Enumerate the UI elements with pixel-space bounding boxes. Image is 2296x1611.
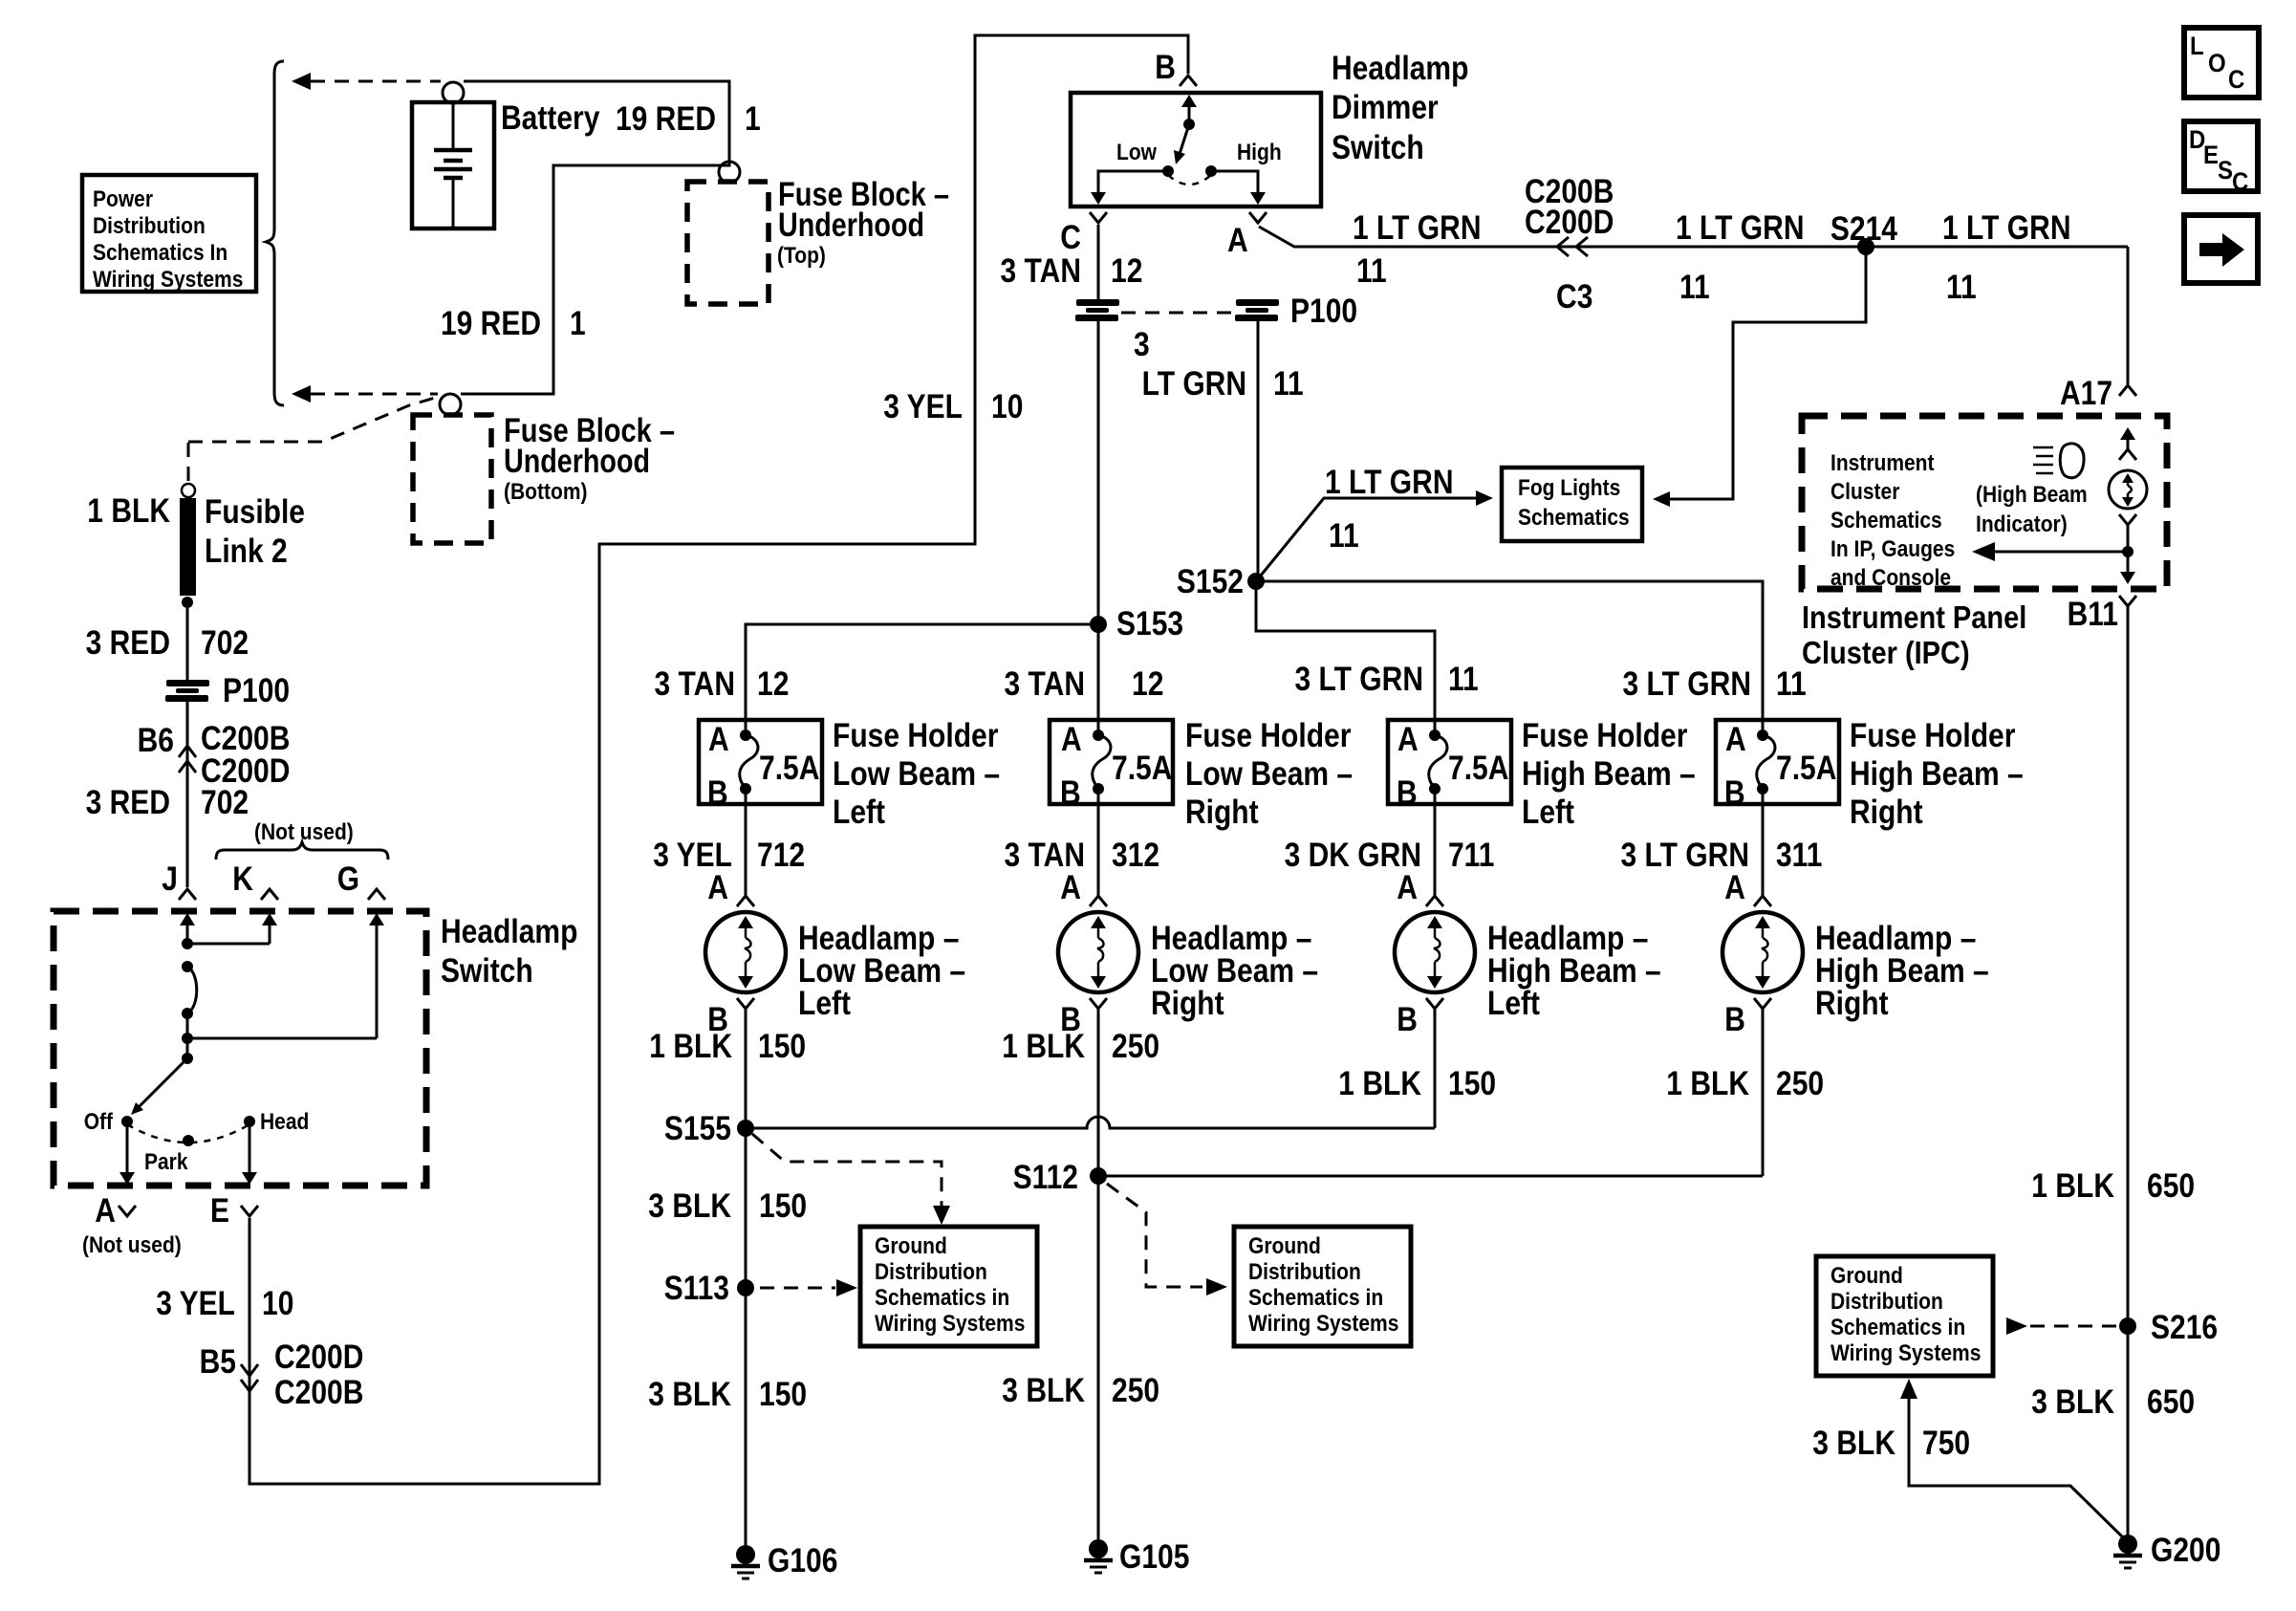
svg-text:Distribution: Distribution xyxy=(93,213,206,239)
svg-text:Battery: Battery xyxy=(501,99,600,137)
svg-text:J: J xyxy=(162,860,178,898)
svg-text:S153: S153 xyxy=(1116,605,1183,642)
svg-text:G: G xyxy=(337,860,359,898)
svg-text:3 BLK: 3 BLK xyxy=(1812,1425,1895,1462)
svg-text:11: 11 xyxy=(1273,365,1304,403)
svg-text:O: O xyxy=(2208,49,2226,77)
bulb lower chevron xyxy=(2119,514,2136,525)
fog lights wire arrow into box (right) xyxy=(1653,491,1670,507)
svg-text:B: B xyxy=(1724,1001,1745,1038)
svg-text:Schematics: Schematics xyxy=(1830,508,1942,533)
fuse block underhood top terminal circle xyxy=(719,162,740,183)
pin J chevron xyxy=(179,889,196,900)
svg-text:A: A xyxy=(1725,721,1746,758)
svg-text:C200D: C200D xyxy=(1525,204,1614,241)
svg-text:High: High xyxy=(1237,140,1282,165)
wire A diagonal to 1 LT GRN run xyxy=(1259,227,2128,247)
svg-text:(Bottom): (Bottom) xyxy=(504,479,588,505)
dashed arc Low-High xyxy=(1168,175,1211,185)
svg-text:Wiring Systems: Wiring Systems xyxy=(1830,1340,1981,1366)
svg-text:B: B xyxy=(1724,774,1745,812)
svg-text:B: B xyxy=(1155,49,1176,86)
svg-text:Instrument Panel: Instrument Panel xyxy=(1802,599,2026,635)
svg-text:1 LT GRN: 1 LT GRN xyxy=(1676,209,1805,247)
svg-text:Schematics: Schematics xyxy=(1518,505,1630,531)
svg-text:E: E xyxy=(2203,141,2219,169)
contact Head xyxy=(244,1116,255,1127)
svg-text:650: 650 xyxy=(2147,1383,2195,1421)
svg-text:A: A xyxy=(707,869,728,906)
label 3 TAN | 12 (mid col) xyxy=(1005,665,1164,703)
svg-text:250: 250 xyxy=(1112,1028,1159,1065)
svg-text:1 LT GRN: 1 LT GRN xyxy=(1353,209,1482,247)
brace left of power feeds xyxy=(266,61,284,405)
svg-text:B11: B11 xyxy=(2068,596,2118,633)
dashed link between P100 grommets xyxy=(1121,312,1234,315)
label C200B C200D (C3) xyxy=(1525,173,1614,241)
svg-text:Left: Left xyxy=(1522,794,1574,831)
svg-text:Left: Left xyxy=(798,985,851,1022)
svg-text:Fuse Holder: Fuse Holder xyxy=(1522,717,1688,754)
junction dot below fusible link xyxy=(182,597,193,608)
label 3 TAN | 12 (left col) xyxy=(655,665,790,703)
headlamp switch dashed box xyxy=(54,911,426,1186)
svg-text:C: C xyxy=(2228,65,2244,94)
wire S214 branch to fog lights xyxy=(1669,247,1866,499)
label Headlamp Switch xyxy=(441,913,577,990)
svg-text:3 BLK: 3 BLK xyxy=(648,1187,731,1225)
headlamp High Beam - Right xyxy=(1722,804,1803,1176)
svg-text:In IP, Gauges: In IP, Gauges xyxy=(1830,536,1955,562)
svg-text:1 BLK: 1 BLK xyxy=(87,492,170,530)
box Ground Distribution Schematics 2 xyxy=(1234,1227,1411,1346)
svg-text:1 LT GRN: 1 LT GRN xyxy=(1325,464,1454,501)
svg-text:Right: Right xyxy=(1815,985,1889,1022)
label Headlamp - High Beam - Left xyxy=(1487,920,1661,1022)
label Headlamp - High Beam - Right xyxy=(1815,920,1989,1022)
svg-text:Schematics in: Schematics in xyxy=(1248,1285,1383,1311)
svg-text:Right: Right xyxy=(1151,985,1224,1022)
nav box LOC xyxy=(2184,28,2259,98)
svg-text:C: C xyxy=(1060,219,1081,256)
label Headlamp Dimmer Switch xyxy=(1332,50,1468,166)
svg-text:Off: Off xyxy=(84,1109,114,1135)
label Headlamp - Low Beam - Left xyxy=(798,920,965,1022)
svg-text:Schematics in: Schematics in xyxy=(1830,1315,1965,1340)
node S214 xyxy=(1857,238,1874,255)
svg-text:702: 702 xyxy=(201,624,249,662)
arrow into ground box 1 xyxy=(933,1206,950,1225)
dimmer A output arrow xyxy=(1211,171,1266,205)
svg-text:S: S xyxy=(2218,156,2233,185)
pin G chevron xyxy=(368,889,385,900)
label 1 BLK | 250 (col4) xyxy=(1666,1065,1824,1102)
high beam indicator icon xyxy=(2033,444,2084,478)
battery Battery xyxy=(412,102,494,229)
wire bus S112 to col4 xyxy=(1098,1175,1763,1178)
svg-text:1 LT GRN: 1 LT GRN xyxy=(1942,209,2071,247)
svg-text:Fusible: Fusible xyxy=(205,493,305,531)
svg-text:Fuse Holder: Fuse Holder xyxy=(1185,717,1352,754)
svg-text:Fuse Holder: Fuse Holder xyxy=(833,717,999,754)
svg-text:3 TAN: 3 TAN xyxy=(655,665,736,703)
label 3 BLK | 150 (upper) xyxy=(648,1187,807,1225)
wire S155 to G106 xyxy=(745,1128,747,1545)
label 3 RED | 702 (lower) xyxy=(86,784,249,821)
pin A17 chevron xyxy=(2119,385,2136,396)
IPC dashed box xyxy=(1802,416,2167,589)
switch arm arrow to Off xyxy=(131,1053,193,1115)
svg-text:Wiring Systems: Wiring Systems xyxy=(1248,1311,1398,1337)
wire S153 to left fuse holder xyxy=(746,624,1098,720)
svg-text:A: A xyxy=(1397,869,1418,906)
svg-text:Fuse Holder: Fuse Holder xyxy=(1850,717,2016,754)
pin B chevron xyxy=(1180,76,1197,86)
svg-text:E: E xyxy=(210,1192,229,1230)
wire B11 down to G200 xyxy=(2127,606,2130,1539)
svg-text:3 BLK: 3 BLK xyxy=(648,1376,731,1413)
svg-text:Link 2: Link 2 xyxy=(205,533,288,570)
svg-text:B5: B5 xyxy=(200,1343,236,1381)
label C200D C200B xyxy=(274,1339,363,1411)
label 1 LT GRN | 11 (fog) xyxy=(1325,464,1454,555)
dashed arrow to power distribution (bottom) xyxy=(292,385,438,403)
svg-text:1 BLK: 1 BLK xyxy=(2031,1167,2114,1205)
label Fuse Block - Underhood (Top) xyxy=(777,176,949,269)
svg-text:3 TAN: 3 TAN xyxy=(1005,665,1086,703)
svg-text:A: A xyxy=(1227,222,1248,259)
svg-text:Cluster: Cluster xyxy=(1830,479,1900,505)
dashed arrow ground box 3 to S216 xyxy=(2006,1317,2116,1335)
label Fuse Holder Low Beam - Right xyxy=(1185,717,1353,831)
fuse holder Low Beam - Left xyxy=(699,720,822,812)
svg-text:P100: P100 xyxy=(223,672,290,709)
svg-text:C200D: C200D xyxy=(274,1339,363,1376)
dashed wire down to fusible link xyxy=(187,443,190,483)
label 3 YEL | 10 (E wire) xyxy=(156,1285,293,1322)
svg-text:150: 150 xyxy=(759,1187,807,1225)
IPC entry arrow xyxy=(2119,427,2136,460)
headlamp dimmer switch box xyxy=(1071,93,1321,207)
svg-text:C3: C3 xyxy=(1556,278,1592,316)
svg-text:702: 702 xyxy=(201,784,249,821)
contact Park xyxy=(183,1135,194,1146)
label 3 BLK | 150 (lower) xyxy=(648,1376,807,1413)
node S152 xyxy=(1247,573,1265,590)
svg-text:10: 10 xyxy=(991,388,1023,425)
label 3 YEL | 712 xyxy=(653,837,805,874)
fusible link 2 xyxy=(180,498,196,596)
svg-text:3: 3 xyxy=(1134,326,1150,363)
svg-text:A: A xyxy=(1724,869,1745,906)
dimmer pivot and arm xyxy=(1174,119,1195,164)
svg-text:C200B: C200B xyxy=(274,1374,363,1411)
svg-text:Right: Right xyxy=(1185,794,1259,831)
svg-text:B: B xyxy=(707,774,728,812)
svg-text:11: 11 xyxy=(1448,661,1479,698)
high beam indicator bulb xyxy=(2109,470,2147,509)
svg-text:250: 250 xyxy=(1112,1372,1159,1409)
svg-text:A: A xyxy=(708,721,729,758)
svg-text:7.5A: 7.5A xyxy=(1776,750,1836,787)
svg-text:Switch: Switch xyxy=(441,952,533,990)
svg-text:Ground: Ground xyxy=(1830,1263,1903,1289)
svg-text:Distribution: Distribution xyxy=(875,1259,987,1285)
grommet P100 (left) xyxy=(165,680,209,702)
fuse holder High Beam - Left xyxy=(1388,720,1511,812)
label 3 DK GRN | 711 xyxy=(1285,837,1495,874)
svg-text:P100: P100 xyxy=(1290,293,1357,330)
svg-text:Schematics In: Schematics In xyxy=(93,240,227,266)
svg-text:Wiring Systems: Wiring Systems xyxy=(875,1311,1025,1337)
svg-text:3 BLK: 3 BLK xyxy=(1002,1372,1085,1409)
box Ground Distribution Schematics 1 xyxy=(860,1227,1037,1346)
svg-text:11: 11 xyxy=(1679,269,1710,306)
pin B11 chevron xyxy=(2119,596,2136,606)
svg-text:1 BLK: 1 BLK xyxy=(649,1028,732,1065)
svg-text:A: A xyxy=(95,1192,116,1230)
label C200B C200D (left) xyxy=(201,720,290,790)
switch G arrow branch xyxy=(182,913,384,1044)
svg-text:(Top): (Top) xyxy=(777,243,826,269)
IPC exit arrow xyxy=(2120,572,2135,584)
svg-text:G200: G200 xyxy=(2151,1532,2220,1569)
wire 3 LT GRN 11 below P100 xyxy=(1257,321,1260,581)
svg-text:19 RED: 19 RED xyxy=(441,305,541,342)
brace over K and G pins xyxy=(216,842,388,860)
node S153 xyxy=(1090,616,1107,633)
fuse holder High Beam - Right xyxy=(1716,720,1839,812)
connector C200D / C200B chevrons (B5) xyxy=(241,1364,258,1391)
label Instrument Panel Cluster (IPC) xyxy=(1802,599,2026,670)
node S113 xyxy=(737,1279,754,1296)
dashed arrow S113 to ground box 1 xyxy=(760,1279,857,1296)
label Fuse Holder Low Beam - Left xyxy=(833,717,1000,831)
svg-text:A: A xyxy=(1397,721,1419,758)
svg-text:G105: G105 xyxy=(1119,1538,1189,1576)
pin A chevron xyxy=(1249,212,1267,223)
svg-text:L: L xyxy=(2190,32,2204,60)
svg-text:Power: Power xyxy=(93,186,153,212)
node S112 xyxy=(1090,1167,1107,1185)
dashed wire S112 to ground distribution box 2 xyxy=(1107,1184,1202,1287)
svg-text:S214: S214 xyxy=(1830,210,1898,248)
svg-text:311: 311 xyxy=(1776,837,1822,874)
svg-text:19 RED: 19 RED xyxy=(616,100,716,138)
label 19 RED | 1 (top) xyxy=(616,100,761,138)
svg-text:High Beam –: High Beam – xyxy=(1522,755,1696,793)
svg-text:Left: Left xyxy=(1487,985,1540,1022)
headlamp Low Beam - Left xyxy=(705,804,786,1128)
headlamp Low Beam - Right xyxy=(1058,804,1138,1539)
svg-text:150: 150 xyxy=(758,1028,806,1065)
svg-text:1: 1 xyxy=(745,100,761,138)
svg-text:12: 12 xyxy=(1111,252,1142,290)
label Fuse Holder High Beam - Left xyxy=(1522,717,1696,831)
label 1 BLK | 650 xyxy=(2031,1167,2195,1205)
svg-text:Left: Left xyxy=(833,794,885,831)
switch Off output arrow xyxy=(119,1121,135,1185)
wire S152 right to high beam right fuse xyxy=(1256,581,1763,720)
wire bulb to junction xyxy=(2127,525,2130,572)
svg-text:3 YEL: 3 YEL xyxy=(156,1285,235,1322)
svg-text:B6: B6 xyxy=(138,722,174,759)
battery positive terminal circle xyxy=(443,82,464,103)
svg-text:High Beam –: High Beam – xyxy=(1850,755,2024,793)
svg-text:Switch: Switch xyxy=(1332,129,1424,166)
label 3 BLK | 650 xyxy=(2031,1383,2195,1421)
svg-text:3 RED: 3 RED xyxy=(86,784,170,821)
svg-text:1 BLK: 1 BLK xyxy=(1338,1065,1421,1102)
svg-text:712: 712 xyxy=(757,837,805,874)
pin C chevron xyxy=(1090,212,1107,223)
pin K chevron xyxy=(261,889,278,900)
svg-text:K: K xyxy=(232,860,253,898)
battery B+ wire 19 RED 1 xyxy=(461,81,729,394)
wire bus S155 with hop over col2 xyxy=(746,1117,1435,1128)
pin E chevron xyxy=(241,1206,258,1216)
svg-text:7.5A: 7.5A xyxy=(1112,750,1172,787)
label 1 BLK | 250 (col2) xyxy=(1002,1028,1159,1065)
svg-text:A17: A17 xyxy=(2060,375,2112,412)
svg-text:Headlamp: Headlamp xyxy=(441,913,577,950)
dashed wire fuse block to fusible link xyxy=(188,398,435,442)
headlamp High Beam - Left xyxy=(1395,804,1475,1128)
label 1 LT GRN | 11 (right) xyxy=(1942,209,2071,306)
svg-text:A: A xyxy=(1061,721,1082,758)
svg-text:Dimmer: Dimmer xyxy=(1332,89,1439,126)
fuse holder Low Beam - Right xyxy=(1050,720,1173,812)
svg-text:S152: S152 xyxy=(1177,563,1244,600)
dashed wire S155 to ground distribution box xyxy=(752,1134,942,1207)
wire below P100 left xyxy=(186,702,189,887)
nav box DESC xyxy=(2184,121,2258,196)
svg-text:7.5A: 7.5A xyxy=(759,750,819,787)
label Headlamp - Low Beam - Right xyxy=(1151,920,1318,1022)
svg-text:(Not used): (Not used) xyxy=(82,1232,182,1258)
arrow into ground box 2 xyxy=(1206,1278,1227,1295)
wire ground box 3 to G200 (3 BLK 750) xyxy=(1900,1379,2127,1541)
svg-text:Park: Park xyxy=(144,1149,188,1175)
svg-text:and Console: and Console xyxy=(1830,565,1951,591)
label 3 LT GRN | 311 xyxy=(1621,837,1823,874)
svg-text:10: 10 xyxy=(262,1285,293,1322)
dimmer B input arrow xyxy=(1181,95,1197,124)
svg-text:1: 1 xyxy=(570,305,586,342)
svg-text:11: 11 xyxy=(1356,252,1387,290)
svg-text:1 BLK: 1 BLK xyxy=(1666,1065,1749,1102)
svg-text:711: 711 xyxy=(1448,837,1494,874)
label Fuse Block - Underhood (Bottom) xyxy=(504,412,675,505)
fuse block - underhood (Bottom) dashed box xyxy=(413,415,491,543)
node S155 xyxy=(737,1120,754,1137)
svg-text:Indicator): Indicator) xyxy=(1976,512,2068,537)
svg-text:11: 11 xyxy=(1329,517,1359,555)
svg-text:250: 250 xyxy=(1776,1065,1824,1102)
wire 3 YEL 10 from E to dimmer B xyxy=(249,35,1188,1484)
label 3 LT GRN | 11 (col4) xyxy=(1623,665,1807,703)
svg-text:S216: S216 xyxy=(2151,1309,2218,1346)
label 3 RED | 702 (upper) xyxy=(86,624,249,662)
label 3 YEL | 10 (riser) xyxy=(883,388,1023,425)
box Fog Lights Schematics xyxy=(1502,468,1642,541)
wire S214 down to A17 riser xyxy=(2127,247,2130,384)
svg-text:Low: Low xyxy=(1116,140,1158,165)
label 3 BLK | 250 xyxy=(1002,1372,1159,1409)
note box: Power Distribution Schematics In Wiring Systems xyxy=(82,175,256,293)
svg-text:S155: S155 xyxy=(664,1110,731,1147)
wire IPC internal arrow left xyxy=(1972,542,2128,561)
wire C to P100 xyxy=(1097,225,1100,299)
wire S152 down to high beam left fuse xyxy=(1256,581,1435,720)
grommet P100 (high beam) xyxy=(1235,299,1279,321)
svg-text:C: C xyxy=(2232,167,2248,196)
svg-text:3 LT GRN: 3 LT GRN xyxy=(1295,661,1424,698)
svg-text:150: 150 xyxy=(759,1376,807,1413)
svg-text:Right: Right xyxy=(1850,794,1923,831)
svg-text:750: 750 xyxy=(1922,1425,1970,1462)
nav box arrow xyxy=(2184,215,2258,283)
svg-text:12: 12 xyxy=(757,665,789,703)
svg-text:B: B xyxy=(1397,1001,1418,1038)
connector C200B / C200D chevrons (B6) xyxy=(179,746,196,773)
label 1 BLK | 150 (col3) xyxy=(1338,1065,1496,1102)
svg-text:Low Beam –: Low Beam – xyxy=(1185,755,1353,793)
svg-text:Distribution: Distribution xyxy=(1248,1259,1361,1285)
wire 3 TAN 12 down to S153 xyxy=(1097,320,1100,720)
svg-text:Head: Head xyxy=(260,1109,309,1135)
box Ground Distribution Schematics 3 xyxy=(1816,1256,1993,1376)
switch J input arrow xyxy=(180,913,195,945)
switch K arrow branch xyxy=(182,913,277,949)
svg-text:A: A xyxy=(1060,869,1081,906)
svg-text:Schematics in: Schematics in xyxy=(875,1285,1009,1311)
label Fusible Link 2 xyxy=(205,493,305,570)
svg-text:3 BLK: 3 BLK xyxy=(2031,1383,2114,1421)
svg-text:3 TAN: 3 TAN xyxy=(1001,252,1082,290)
contact High xyxy=(1205,165,1217,177)
svg-text:Ground: Ground xyxy=(1248,1233,1321,1259)
label 3 BLK | 750 xyxy=(1812,1425,1970,1462)
svg-text:G106: G106 xyxy=(768,1542,837,1579)
switch wiper contacts and coil xyxy=(182,961,197,1058)
dashed arc Off-Park-Head xyxy=(127,1124,249,1143)
svg-text:(High Beam: (High Beam xyxy=(1976,482,2088,508)
fusible link terminal circle xyxy=(182,484,195,497)
svg-text:3 LT GRN: 3 LT GRN xyxy=(1623,665,1752,703)
svg-text:S113: S113 xyxy=(664,1270,729,1307)
contact Low xyxy=(1162,165,1174,177)
label A (Not used) xyxy=(82,1192,182,1258)
svg-text:650: 650 xyxy=(2147,1167,2195,1205)
svg-text:12: 12 xyxy=(1132,665,1163,703)
label 1 BLK | 150 (col1) xyxy=(649,1028,806,1065)
label 3 LT GRN | 11 (col3) xyxy=(1295,661,1479,698)
svg-text:Instrument: Instrument xyxy=(1830,450,1935,476)
wire S152 to fog lights arrow xyxy=(1256,490,1493,581)
svg-text:Underhood: Underhood xyxy=(778,207,924,244)
svg-text:Low Beam –: Low Beam – xyxy=(833,755,1000,793)
svg-text:150: 150 xyxy=(1448,1065,1496,1102)
svg-text:312: 312 xyxy=(1112,837,1159,874)
svg-text:Distribution: Distribution xyxy=(1830,1289,1943,1315)
label 19 RED | 1 (to bottom fuse block) xyxy=(441,305,586,342)
grommet P100 (low beam) xyxy=(1075,299,1119,321)
label 1 LT GRN | 11 (at A) xyxy=(1353,209,1482,290)
svg-text:Headlamp: Headlamp xyxy=(1332,50,1468,87)
svg-text:B: B xyxy=(1397,774,1418,812)
IPC text Instrument Cluster Schematics xyxy=(1830,450,1955,591)
